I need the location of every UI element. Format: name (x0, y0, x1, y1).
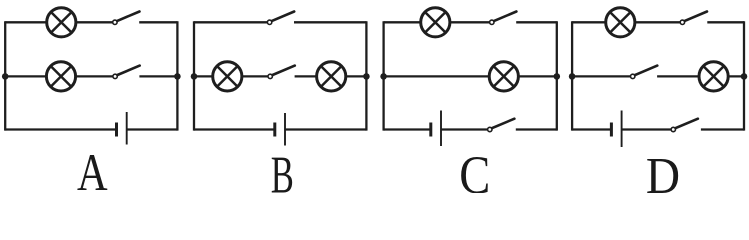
switch D-S2 (open) (631, 66, 658, 79)
junction C left node (380, 73, 387, 80)
lamp A-L2 (46, 62, 75, 91)
junction C right node (554, 73, 561, 80)
wire D top-left (572, 21, 606, 23)
wire C left edge (382, 21, 384, 130)
circuit B (191, 12, 370, 205)
switch C-S1 (open) (490, 12, 517, 25)
wire C bottom between battery and S2 (441, 128, 488, 130)
wire D right edge (743, 21, 745, 130)
wire A bottom-right from battery (127, 128, 178, 130)
junction A right node (174, 73, 181, 80)
switch D-S3 (open) (671, 119, 698, 132)
lamp C-L2 (489, 62, 518, 91)
svg-text:A: A (77, 144, 108, 193)
wire D mid between S2 and L2 (657, 75, 699, 77)
switch A-S2 (open) (113, 66, 140, 79)
circuit D (569, 8, 748, 205)
wire B left edge (193, 21, 195, 130)
wire D bottom-right (701, 128, 744, 130)
junction D left node (569, 73, 576, 80)
wire C bottom-left to battery (384, 128, 431, 130)
wire B right edge (365, 21, 367, 130)
lamp C-L1 (421, 8, 450, 37)
wire C mid-right (518, 75, 557, 77)
wire C top-right (516, 21, 557, 23)
svg-text:C: C (459, 145, 490, 193)
wire A bottom-left to battery (5, 128, 116, 130)
switch B-S1 (open) (267, 12, 294, 25)
junction B right node (363, 73, 370, 80)
lamp D-L1 (606, 8, 635, 37)
wire A mid-right (139, 75, 177, 77)
wire D top-right (707, 21, 744, 23)
wire C top between L1 and S1 (450, 21, 490, 23)
wire D mid-right (728, 75, 744, 77)
wire D mid-left (572, 75, 630, 77)
wire C bottom-right (516, 128, 557, 130)
switch B-S2 (open) (268, 66, 295, 79)
battery A (117, 112, 127, 145)
battery C (431, 111, 441, 147)
switch A-S1 (open) (113, 12, 140, 25)
lamp B-L1 (213, 62, 242, 91)
lamp D-L2 (699, 62, 728, 91)
wire A top-right (139, 21, 177, 23)
wire D bottom-left to battery (572, 128, 611, 130)
svg-text:B: B (271, 145, 294, 193)
wire B mid between S2 and L2 (295, 75, 317, 77)
wire B mid between L1 and S2 (242, 75, 268, 77)
wire B mid-right (346, 75, 367, 77)
junction A left node (2, 73, 9, 80)
wire B mid-left (194, 75, 213, 77)
wire A left edge (4, 21, 6, 130)
junction B left node (191, 73, 198, 80)
wire D top between L1 and S1 (635, 21, 681, 23)
wire A mid between L2 and S2 (75, 75, 113, 77)
svg-text:D: D (646, 147, 680, 193)
switch C-S2 (open) (488, 119, 515, 132)
wire B bottom-left to battery (194, 128, 275, 130)
circuit C (380, 8, 560, 205)
lamp A-L1 (47, 8, 76, 37)
wire D left edge (571, 21, 573, 130)
battery D (611, 111, 621, 148)
wire A right edge (176, 21, 178, 130)
lamp B-L2 (317, 62, 346, 91)
switch D-S1 (open) (680, 12, 707, 25)
wire A mid-left (5, 75, 47, 77)
wire D bottom between battery and S3 (622, 128, 672, 130)
wire B top-left (194, 21, 268, 23)
wire C top-left (384, 21, 421, 23)
wire C right edge (556, 21, 558, 130)
wire B top-right (294, 21, 366, 23)
circuit A (2, 8, 181, 202)
battery B (275, 113, 285, 146)
wire C mid-left (384, 75, 490, 77)
wire A top between L1 and S1 (76, 21, 113, 23)
junction D right node (741, 73, 748, 80)
wire B bottom-right from battery (286, 128, 367, 130)
wire A top-left (5, 21, 47, 23)
